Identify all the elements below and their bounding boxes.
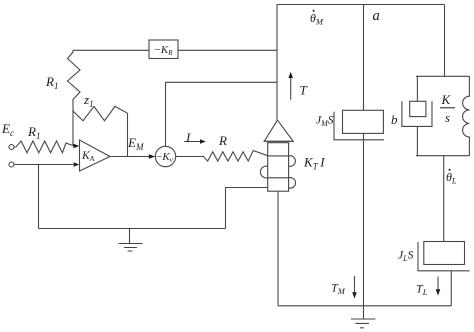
terminal E_c upper	[9, 145, 14, 150]
resistor R1 input zigzag	[14, 141, 74, 153]
damper b cylinder	[402, 101, 432, 126]
wire top line	[277, 4, 445, 6]
arrow T_L	[437, 277, 439, 291]
motor coil bump right 2	[289, 178, 296, 189]
wire -K_R to motor rail	[178, 49, 277, 51]
arrow into -Kv	[149, 154, 155, 159]
svg-text:s: s	[445, 111, 450, 125]
wire spring-damper bottom bar	[416, 155, 469, 157]
mass J_L s box	[424, 242, 465, 265]
op-amp K_A	[80, 140, 111, 171]
wire lower input	[14, 164, 73, 166]
motor coil bump right 1	[289, 156, 296, 167]
wire -Kv output	[176, 156, 201, 158]
ground left	[119, 229, 143, 252]
wire z1 to E_M node	[127, 113, 129, 156]
wire to -K_R	[73, 49, 149, 51]
wire feedback drop	[38, 165, 40, 229]
resistor R	[201, 151, 268, 162]
svg-text:b: b	[391, 112, 398, 127]
wire right rail	[444, 5, 446, 77]
wire motor top	[276, 5, 278, 121]
svg-text:T: T	[300, 83, 308, 98]
spring K/s	[463, 76, 470, 155]
motor triangle base	[264, 140, 294, 142]
mass J_M s bracket	[334, 112, 384, 140]
wire spring-damper top bar	[416, 75, 469, 77]
svg-text:I: I	[185, 130, 191, 145]
motor coil chord 1	[268, 155, 289, 157]
wire motor bottom	[277, 191, 279, 306]
resistor z1 feedback	[73, 106, 128, 120]
motor triangle	[264, 120, 293, 141]
motor coil chord 2	[268, 177, 289, 179]
ground right	[351, 319, 375, 328]
arrow T_M	[354, 276, 356, 293]
mass J_M s box	[343, 110, 384, 133]
svg-text:K: K	[441, 92, 452, 107]
wire -Kv feedback up	[166, 82, 277, 146]
circle -Kv	[155, 146, 175, 166]
node a rail	[363, 5, 365, 111]
wire op-amp output	[110, 156, 155, 158]
motor body	[268, 143, 289, 192]
wire bottom rail right	[278, 305, 451, 307]
wire theta_L drop	[443, 156, 445, 242]
wire bottom rail riser	[226, 188, 268, 229]
resistor R1 feedback vertical	[68, 50, 81, 146]
arrow I	[184, 141, 201, 143]
motor coil bump left	[260, 166, 267, 178]
svg-text:R: R	[218, 133, 227, 148]
arrow into op-amp upper	[74, 144, 80, 148]
terminal lower	[9, 162, 14, 167]
arrow T	[290, 77, 292, 100]
wire J_M s down to ground	[363, 133, 365, 319]
wire bottom rail left	[39, 228, 226, 230]
damper b piston	[410, 101, 426, 116]
wire damper drop	[416, 76, 418, 101]
block -K_R	[149, 40, 178, 59]
wire damper bottom	[416, 126, 418, 155]
svg-text:a: a	[373, 8, 380, 24]
wire J_L s to bottom rail	[450, 271, 452, 306]
arrow into op-amp lower	[74, 162, 80, 166]
mass J_L s bracket	[418, 242, 470, 271]
